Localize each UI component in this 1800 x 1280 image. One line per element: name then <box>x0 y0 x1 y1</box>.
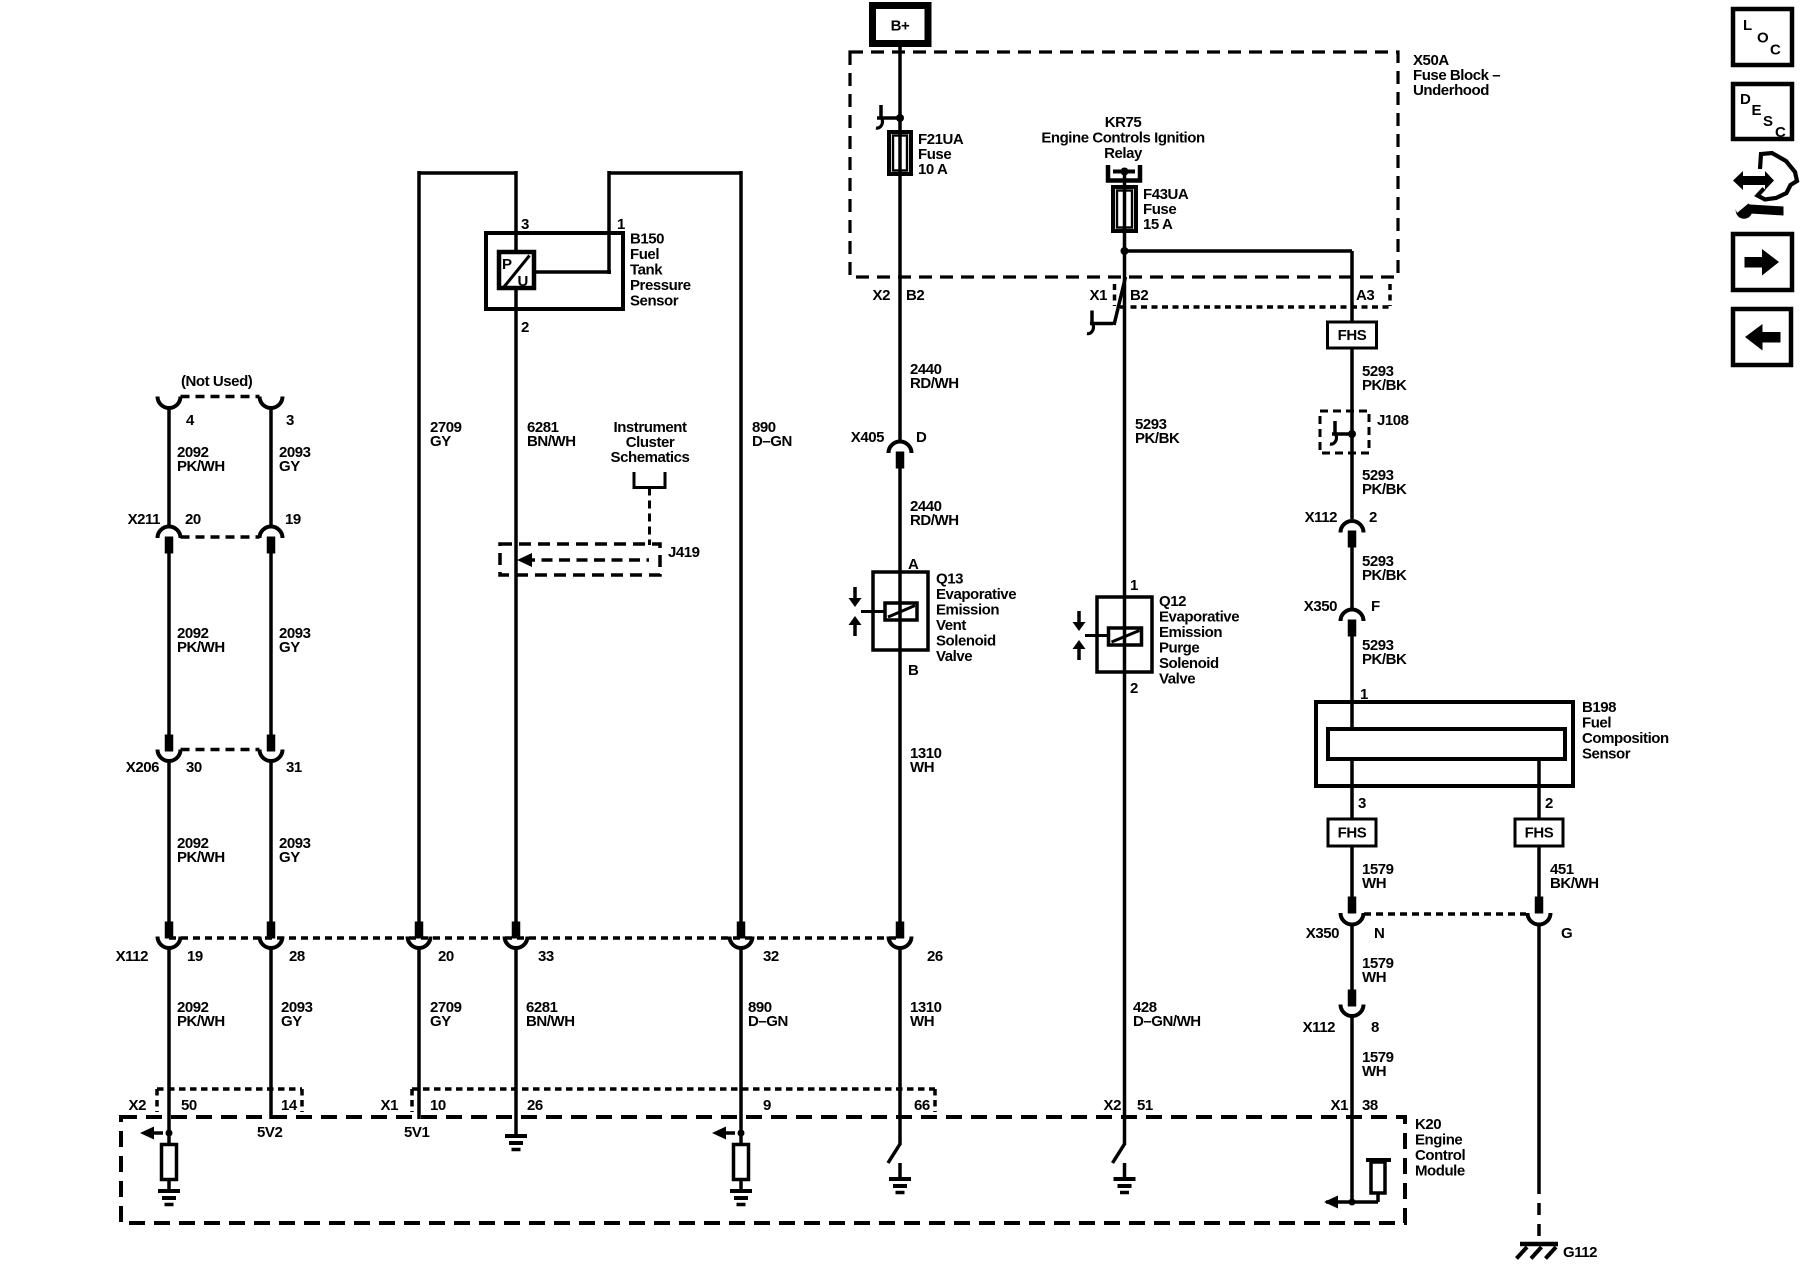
svg-text:32: 32 <box>763 948 779 965</box>
svg-text:Composition: Composition <box>1582 730 1669 747</box>
svg-text:26: 26 <box>927 948 943 965</box>
svg-text:KR75: KR75 <box>1105 114 1142 131</box>
svg-text:50: 50 <box>181 1097 197 1114</box>
svg-text:X112: X112 <box>1303 1019 1336 1036</box>
svg-text:14: 14 <box>281 1097 298 1114</box>
svg-text:X405: X405 <box>851 429 884 446</box>
svg-text:D: D <box>1740 91 1751 108</box>
svg-text:38: 38 <box>1362 1097 1378 1114</box>
svg-text:C: C <box>1770 42 1781 59</box>
svg-text:19: 19 <box>187 948 203 965</box>
svg-text:Emission: Emission <box>1159 624 1222 641</box>
svg-text:BK/WH: BK/WH <box>1550 875 1599 892</box>
svg-text:Valve: Valve <box>1159 671 1195 688</box>
svg-text:WH: WH <box>910 1013 934 1030</box>
svg-text:Purge: Purge <box>1159 640 1199 657</box>
svg-text:Fuel: Fuel <box>1582 715 1611 732</box>
svg-text:D–GN: D–GN <box>752 433 792 450</box>
svg-text:J419: J419 <box>668 544 700 561</box>
svg-text:GY: GY <box>430 433 451 450</box>
svg-text:3: 3 <box>521 216 529 233</box>
svg-text:X350: X350 <box>1306 925 1339 942</box>
svg-text:G112: G112 <box>1563 1244 1597 1261</box>
svg-text:Q12: Q12 <box>1159 593 1186 610</box>
svg-text:WH: WH <box>910 759 934 776</box>
svg-text:X1: X1 <box>1331 1097 1349 1114</box>
svg-text:X2: X2 <box>129 1097 147 1114</box>
svg-text:9: 9 <box>763 1097 771 1114</box>
svg-text:X1: X1 <box>1090 287 1108 304</box>
svg-text:19: 19 <box>285 511 301 528</box>
svg-text:L: L <box>1743 17 1752 34</box>
svg-text:O: O <box>1757 30 1769 47</box>
svg-text:FHS: FHS <box>1338 327 1367 344</box>
svg-text:D–GN/WH: D–GN/WH <box>1133 1013 1201 1030</box>
svg-text:C: C <box>1775 124 1786 141</box>
svg-text:Control: Control <box>1415 1147 1465 1164</box>
svg-text:5V2: 5V2 <box>257 1124 282 1141</box>
svg-text:X2: X2 <box>873 287 891 304</box>
svg-text:Sensor: Sensor <box>630 293 679 310</box>
svg-text:GY: GY <box>279 849 300 866</box>
svg-text:B198: B198 <box>1582 699 1616 716</box>
svg-text:PK/BK: PK/BK <box>1362 567 1407 584</box>
svg-text:3: 3 <box>286 412 294 429</box>
svg-text:Valve: Valve <box>936 648 972 665</box>
svg-text:Solenoid: Solenoid <box>1159 655 1219 672</box>
svg-text:F: F <box>1371 598 1380 615</box>
svg-text:10: 10 <box>430 1097 446 1114</box>
svg-text:3: 3 <box>1358 795 1366 812</box>
svg-text:GY: GY <box>430 1013 451 1030</box>
svg-text:4: 4 <box>186 412 195 429</box>
svg-text:FHS: FHS <box>1338 825 1367 842</box>
svg-text:X112: X112 <box>116 948 149 965</box>
svg-text:1: 1 <box>617 216 625 233</box>
svg-text:D–GN: D–GN <box>748 1013 788 1030</box>
svg-text:15 A: 15 A <box>1143 216 1173 233</box>
svg-text:U: U <box>518 273 528 290</box>
svg-text:Evaporative: Evaporative <box>1159 609 1239 626</box>
svg-text:51: 51 <box>1137 1097 1153 1114</box>
svg-text:A3: A3 <box>1356 287 1374 304</box>
svg-text:WH: WH <box>1362 875 1386 892</box>
svg-text:BN/WH: BN/WH <box>527 433 576 450</box>
svg-text:N: N <box>1374 925 1384 942</box>
svg-text:BN/WH: BN/WH <box>526 1013 575 1030</box>
svg-text:PK/WH: PK/WH <box>177 849 225 866</box>
svg-text:Vent: Vent <box>936 617 966 634</box>
svg-text:GY: GY <box>281 1013 302 1030</box>
svg-text:8: 8 <box>1371 1019 1379 1036</box>
svg-text:30: 30 <box>186 759 202 776</box>
svg-text:E: E <box>1752 102 1762 119</box>
svg-text:10 A: 10 A <box>918 161 948 178</box>
svg-text:B2: B2 <box>1130 287 1148 304</box>
svg-text:D: D <box>916 429 927 446</box>
svg-text:P: P <box>502 256 512 273</box>
svg-text:1: 1 <box>1130 577 1138 594</box>
svg-text:Engine: Engine <box>1415 1132 1462 1149</box>
svg-text:Q13: Q13 <box>936 571 963 588</box>
svg-text:Module: Module <box>1415 1163 1465 1180</box>
svg-text:B150: B150 <box>630 231 664 248</box>
svg-text:(Not Used): (Not Used) <box>181 373 253 390</box>
svg-text:FHS: FHS <box>1525 825 1554 842</box>
svg-text:33: 33 <box>538 948 554 965</box>
svg-text:PK/BK: PK/BK <box>1135 430 1180 447</box>
svg-text:Schematics: Schematics <box>611 449 690 466</box>
svg-text:Engine Controls Ignition: Engine Controls Ignition <box>1041 130 1205 147</box>
svg-text:Pressure: Pressure <box>630 277 691 294</box>
svg-text:B+: B+ <box>891 18 910 35</box>
svg-text:B2: B2 <box>906 287 924 304</box>
svg-text:RD/WH: RD/WH <box>910 512 959 529</box>
svg-text:PK/BK: PK/BK <box>1362 651 1407 668</box>
svg-text:28: 28 <box>289 948 305 965</box>
svg-text:PK/WH: PK/WH <box>177 639 225 656</box>
svg-text:66: 66 <box>914 1097 930 1114</box>
svg-text:GY: GY <box>279 639 300 656</box>
svg-text:26: 26 <box>527 1097 543 1114</box>
svg-text:Relay: Relay <box>1104 145 1143 162</box>
svg-text:X1: X1 <box>381 1097 399 1114</box>
svg-text:Evaporative: Evaporative <box>936 586 1016 603</box>
svg-text:Underhood: Underhood <box>1413 82 1489 99</box>
svg-text:J108: J108 <box>1377 412 1409 429</box>
svg-text:Emission: Emission <box>936 602 999 619</box>
svg-text:31: 31 <box>286 759 302 776</box>
svg-text:Tank: Tank <box>630 262 663 279</box>
svg-text:X211: X211 <box>128 511 161 528</box>
svg-text:S: S <box>1763 113 1773 130</box>
svg-text:WH: WH <box>1362 1063 1386 1080</box>
svg-text:5V1: 5V1 <box>404 1124 429 1141</box>
svg-text:B: B <box>908 662 919 679</box>
svg-text:2: 2 <box>1369 509 1377 526</box>
svg-text:Fuel: Fuel <box>630 246 659 263</box>
svg-text:PK/BK: PK/BK <box>1362 481 1407 498</box>
svg-text:RD/WH: RD/WH <box>910 375 959 392</box>
svg-text:X350: X350 <box>1304 598 1337 615</box>
svg-text:20: 20 <box>438 948 454 965</box>
svg-text:X112: X112 <box>1305 509 1338 526</box>
svg-text:G: G <box>1561 925 1572 942</box>
svg-text:WH: WH <box>1362 969 1386 986</box>
svg-text:Solenoid: Solenoid <box>936 633 996 650</box>
svg-text:X2: X2 <box>1104 1097 1122 1114</box>
svg-text:2: 2 <box>521 319 529 336</box>
svg-text:Sensor: Sensor <box>1582 746 1631 763</box>
svg-text:X206: X206 <box>126 759 159 776</box>
svg-text:20: 20 <box>185 511 201 528</box>
svg-text:PK/BK: PK/BK <box>1362 377 1407 394</box>
svg-text:GY: GY <box>279 458 300 475</box>
svg-text:K20: K20 <box>1415 1116 1441 1133</box>
svg-text:2: 2 <box>1130 680 1138 697</box>
svg-text:PK/WH: PK/WH <box>177 1013 225 1030</box>
svg-text:2: 2 <box>1545 795 1553 812</box>
svg-text:PK/WH: PK/WH <box>177 458 225 475</box>
